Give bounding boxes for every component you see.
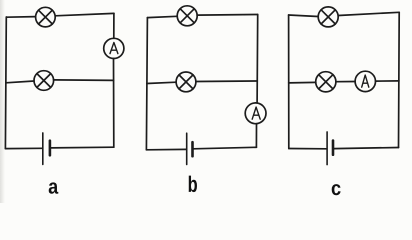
wire: c bottom-left	[289, 148, 326, 150]
wire: b middle-right	[196, 80, 257, 83]
battery cell (circuit c)	[327, 132, 333, 165]
lamp L6 (circuit c middle)	[316, 72, 336, 92]
ammeter letter A (circuit b)	[252, 107, 260, 119]
wire: b top-right	[197, 14, 258, 17]
ammeter A (circuit b)	[245, 103, 266, 124]
lamp L2 (circuit a middle)	[34, 71, 54, 91]
wire: b bottom-right	[193, 147, 256, 149]
battery cell (circuit a)	[43, 133, 50, 165]
lamp L1 (circuit a top)	[36, 7, 56, 27]
label b	[189, 176, 197, 193]
ammeter A (circuit c)	[355, 71, 375, 91]
ammeter A (circuit a)	[104, 38, 124, 58]
wire: c middle-left	[289, 81, 316, 84]
wire: a bottom-left	[5, 147, 42, 149]
wire: a top-right	[55, 13, 114, 15]
wire: b middle-left	[147, 82, 176, 83]
wire: a top-left	[6, 16, 35, 19]
wire: c bottom-right	[334, 148, 399, 149]
lamp L4 (circuit b middle)	[176, 72, 196, 92]
ammeter letter A (circuit c)	[362, 75, 369, 87]
ammeter letter A (circuit a)	[110, 43, 118, 54]
wire: c middle-right	[376, 80, 399, 82]
wire: c top-right	[338, 12, 399, 15]
wire: a middle-right	[54, 79, 114, 82]
label c	[332, 184, 341, 195]
wire: b top-left	[147, 16, 177, 17]
wire: a left vertical	[4, 17, 7, 149]
label a	[49, 182, 59, 193]
wire: a right vertical upper	[113, 13, 115, 38]
wire: c middle (lamp to ammeter)	[336, 81, 355, 83]
wire: a right vertical lower	[113, 59, 115, 148]
wire: b bottom-left	[146, 148, 185, 150]
lamp L3 (circuit b top)	[177, 6, 197, 26]
wire: b left vertical	[146, 18, 147, 150]
wire: c top-left	[289, 15, 318, 17]
wire: a middle-left	[6, 81, 34, 83]
wire: b right vertical lower	[255, 124, 257, 148]
lamp L5 (circuit c top)	[318, 7, 338, 27]
wire: b right vertical upper	[256, 15, 259, 104]
wire: c right vertical	[398, 12, 401, 147]
wire: c left vertical	[288, 15, 290, 149]
wire: a bottom-right	[51, 146, 114, 149]
battery cell (circuit b)	[187, 133, 193, 164]
